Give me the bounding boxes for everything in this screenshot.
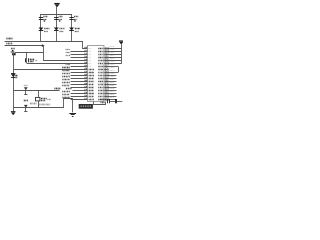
ground arrow left	[11, 112, 16, 116]
capacitor C6 bottom right	[108, 99, 116, 103]
wire branch 2	[56, 14, 58, 42]
net labels on bottom rail	[30, 103, 37, 105]
diode D2	[54, 28, 65, 32]
pin row 13	[62, 83, 116, 85]
wire main left vertical	[13, 53, 15, 112]
node label VCC left	[6, 38, 12, 40]
part label box	[79, 104, 93, 109]
ground symbol	[69, 114, 76, 117]
wire rail 2 with entry arrow	[5, 45, 43, 47]
wire branch 3	[71, 14, 73, 42]
capacitor C5 on bottom rail	[24, 101, 28, 112]
wire RST row	[13, 90, 59, 92]
pin row 16	[62, 92, 116, 94]
pin row 6	[85, 62, 122, 64]
wire IC bottom to crystal chain	[94, 102, 106, 105]
capacitor C7 bottom right	[116, 99, 123, 103]
wire crystal to IC	[27, 63, 88, 65]
pin row 15	[66, 89, 117, 91]
pin row 14	[62, 86, 116, 88]
pin row 1	[85, 47, 122, 49]
pin row 2	[66, 50, 122, 52]
diode D1	[39, 28, 50, 32]
pin row 11	[62, 77, 116, 79]
wire bottom rail	[13, 99, 72, 113]
pin row 5	[85, 59, 122, 61]
pin row 8	[85, 68, 115, 70]
node label 2 left	[6, 43, 12, 45]
capacitor C3	[69, 17, 78, 22]
resistor R1	[36, 91, 52, 108]
wire S1 to vertical	[15, 52, 44, 54]
wire main rail to IC pin 1	[5, 42, 88, 49]
wire to IC pin row 5	[44, 46, 88, 61]
capacitor C1	[39, 17, 48, 22]
pin row 7	[66, 65, 118, 67]
power symbol VCC top	[54, 4, 59, 15]
diode D3	[69, 28, 80, 32]
pin row 12	[62, 80, 116, 82]
crystal Y1	[26, 58, 38, 62]
capacitor C2	[54, 17, 63, 22]
pin row 4	[66, 56, 122, 58]
pin row 10	[62, 74, 116, 76]
capacitor C4 on RST wire	[24, 86, 28, 95]
power symbol VCC right	[119, 41, 124, 73]
IC U1 body	[88, 46, 105, 102]
pin row 9	[62, 71, 118, 73]
pin row 18	[62, 98, 116, 100]
wire top rail	[41, 14, 73, 16]
wire crystal branch	[26, 52, 28, 63]
wire branch 1	[40, 14, 42, 42]
pin row 17	[62, 95, 116, 97]
pin row 3	[66, 53, 122, 55]
wire step row6 to row8	[118, 67, 120, 73]
wire reset row to IC	[13, 69, 88, 71]
diode LED1	[11, 74, 18, 78]
switch S1	[11, 49, 16, 56]
